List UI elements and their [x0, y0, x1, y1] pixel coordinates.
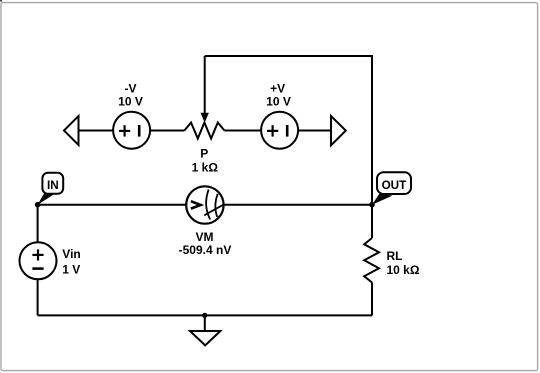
svg-text:+V: +V — [270, 81, 285, 95]
svg-text:10 kΩ: 10 kΩ — [387, 263, 420, 277]
svg-text:1 kΩ: 1 kΩ — [192, 160, 219, 174]
voltage source Vin (1 V) — [20, 242, 57, 279]
svg-text:RL: RL — [387, 249, 403, 263]
wire: RL down to bottom rail — [371, 283, 373, 316]
potentiometer P wiper arrow — [201, 56, 209, 123]
svg-text:10 V: 10 V — [266, 94, 291, 108]
net arrow left (-V rail pointer) — [64, 116, 79, 145]
wire: potentiometer to +V source — [224, 130, 261, 132]
svg-text:P: P — [200, 147, 208, 161]
wire: +V source to right arrow — [298, 130, 331, 132]
wire: bottom rail — [38, 314, 372, 316]
node IN junction dot — [35, 202, 41, 208]
wire: IN node down to Vin — [37, 205, 39, 243]
potentiometer P body (zigzag) — [184, 123, 224, 139]
voltage source +V (10 V) — [261, 112, 298, 149]
wire: OUT node down to RL — [371, 205, 373, 238]
node OUT junction dot — [369, 202, 375, 208]
flag IN — [38, 173, 64, 205]
svg-text:OUT: OUT — [382, 179, 408, 192]
flag OUT — [372, 172, 411, 204]
svg-text:-V: -V — [125, 81, 137, 95]
wire: top rail from wiper to right rail — [205, 56, 372, 205]
voltage source -V (10 V) — [113, 112, 150, 149]
net arrow right (+V rail pointer) — [331, 116, 346, 145]
wire: Vin down to bottom rail — [37, 279, 39, 315]
wire: middle row IN node to voltmeter — [38, 204, 187, 206]
svg-text:Vin: Vin — [62, 247, 80, 261]
wire: left arrow to -V source — [79, 130, 114, 132]
voltmeter VM — [186, 186, 223, 223]
svg-text:10 V: 10 V — [118, 94, 143, 108]
wire: voltmeter to OUT node — [224, 204, 372, 206]
ground — [190, 315, 220, 345]
ground junction dot — [202, 313, 207, 318]
svg-text:-509.4 nV: -509.4 nV — [179, 243, 232, 257]
svg-text:1 V: 1 V — [62, 263, 80, 277]
wire: -V source to potentiometer — [150, 130, 184, 132]
svg-text:IN: IN — [47, 179, 59, 192]
resistor RL (zigzag) — [364, 238, 379, 283]
